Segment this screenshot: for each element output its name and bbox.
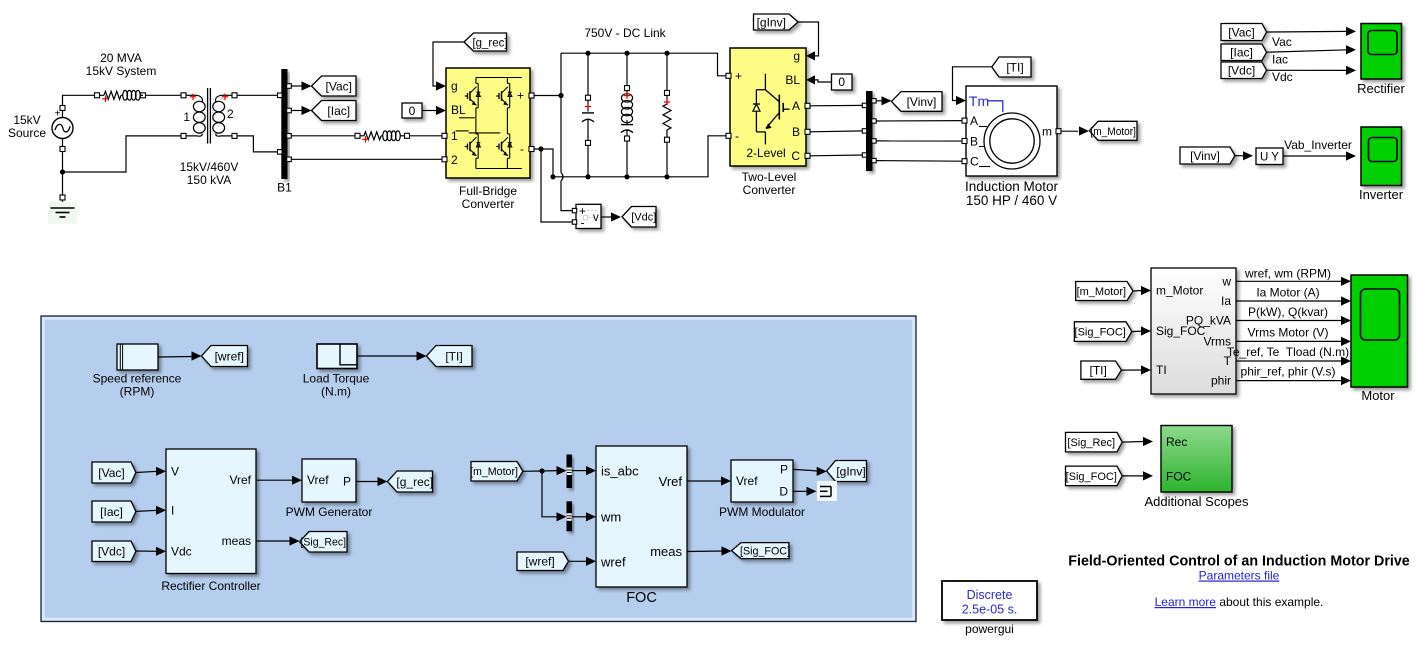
svg-text:Iac: Iac bbox=[1272, 53, 1288, 67]
svg-text:phir: phir bbox=[1211, 374, 1231, 388]
svg-text:Converter: Converter bbox=[462, 197, 515, 211]
svg-text:750V - DC Link: 750V - DC Link bbox=[584, 26, 666, 40]
svg-text:FOC: FOC bbox=[1166, 469, 1192, 483]
svg-text:[Sig_FOC]: [Sig_FOC] bbox=[740, 546, 790, 558]
svg-text:Rectifier Controller: Rectifier Controller bbox=[161, 579, 260, 593]
svg-text:P: P bbox=[780, 462, 788, 476]
svg-text:[TI]: [TI] bbox=[445, 349, 462, 363]
svg-text:B: B bbox=[970, 135, 978, 149]
svg-text:15kV System: 15kV System bbox=[86, 64, 157, 78]
svg-text:-: - bbox=[735, 129, 739, 143]
svg-text:Learn more about this example.: Learn more about this example. bbox=[1155, 595, 1324, 609]
svg-text:[Iac]: [Iac] bbox=[1230, 46, 1253, 60]
svg-text:C: C bbox=[791, 149, 800, 163]
svg-text:[Sig_Rec]: [Sig_Rec] bbox=[1067, 437, 1115, 449]
svg-text:m: m bbox=[1042, 125, 1052, 139]
svg-text:Rectifier: Rectifier bbox=[1357, 81, 1405, 96]
svg-text:[m_Motor]: [m_Motor] bbox=[1090, 126, 1136, 138]
svg-text:[m_Motor]: [m_Motor] bbox=[470, 466, 518, 478]
svg-text:w: w bbox=[1221, 275, 1231, 289]
svg-text:150 HP / 460 V: 150 HP / 460 V bbox=[966, 193, 1057, 208]
svg-text:v: v bbox=[593, 212, 599, 224]
svg-text:(RPM): (RPM) bbox=[120, 385, 155, 399]
svg-text:Vdc: Vdc bbox=[171, 545, 192, 559]
svg-text:g: g bbox=[451, 79, 458, 93]
svg-text:Motor: Motor bbox=[1361, 388, 1395, 403]
svg-text:A: A bbox=[792, 99, 800, 113]
svg-text:Ia: Ia bbox=[1221, 294, 1231, 308]
svg-text:2-Level: 2-Level bbox=[746, 146, 785, 160]
svg-text:I: I bbox=[171, 503, 174, 517]
svg-text:Source: Source bbox=[8, 126, 46, 140]
svg-text:(N.m): (N.m) bbox=[321, 385, 351, 399]
svg-text:B: B bbox=[792, 125, 800, 139]
svg-text:P(kW), Q(kvar): P(kW), Q(kvar) bbox=[1248, 305, 1328, 319]
svg-text:PQ_kVA: PQ_kVA bbox=[1186, 314, 1231, 328]
svg-text:Induction Motor: Induction Motor bbox=[965, 179, 1059, 194]
svg-text:Converter: Converter bbox=[743, 183, 796, 197]
svg-text:[Vdc]: [Vdc] bbox=[98, 545, 125, 559]
svg-text:P: P bbox=[343, 475, 351, 489]
svg-text:Load Torque: Load Torque bbox=[303, 372, 370, 386]
svg-text:Rec: Rec bbox=[1166, 435, 1187, 449]
svg-text:Vref: Vref bbox=[659, 474, 683, 489]
svg-text:-: - bbox=[520, 142, 524, 156]
svg-text:[TI]: [TI] bbox=[1090, 363, 1107, 377]
svg-text:[Iac]: [Iac] bbox=[327, 104, 350, 118]
svg-text:is_abc: is_abc bbox=[601, 463, 639, 478]
svg-text:[gInv]: [gInv] bbox=[836, 464, 865, 478]
svg-text:+: + bbox=[55, 109, 61, 120]
svg-text:B1: B1 bbox=[277, 181, 292, 195]
svg-text:2: 2 bbox=[227, 107, 234, 121]
svg-text:1: 1 bbox=[183, 110, 190, 124]
svg-text:2.5e-05 s.: 2.5e-05 s. bbox=[962, 603, 1018, 617]
svg-text:PWM Generator: PWM Generator bbox=[286, 505, 373, 519]
svg-text:15kV/460V: 15kV/460V bbox=[180, 160, 239, 174]
svg-text:[Vac]: [Vac] bbox=[1228, 25, 1254, 39]
svg-text:[Vinv]: [Vinv] bbox=[907, 95, 937, 109]
svg-text:C: C bbox=[970, 155, 979, 169]
svg-text:V: V bbox=[171, 464, 179, 478]
svg-text:Full-Bridge: Full-Bridge bbox=[459, 184, 517, 198]
svg-text:Ia Motor (A): Ia Motor (A) bbox=[1256, 286, 1319, 300]
svg-text:Vab_Inverter: Vab_Inverter bbox=[1284, 138, 1352, 152]
svg-text:2: 2 bbox=[451, 153, 458, 167]
svg-text:FOC: FOC bbox=[626, 590, 657, 606]
svg-text:Additional Scopes: Additional Scopes bbox=[1144, 494, 1249, 509]
svg-text:Vdc: Vdc bbox=[1272, 70, 1293, 84]
svg-text:PWM Modulator: PWM Modulator bbox=[719, 505, 805, 519]
svg-text:m_Motor: m_Motor bbox=[1156, 284, 1203, 298]
svg-text:[g_rec]: [g_rec] bbox=[396, 475, 433, 489]
svg-text:[Vdc]: [Vdc] bbox=[1228, 64, 1255, 78]
svg-text:[wref]: [wref] bbox=[215, 349, 244, 363]
svg-text:g: g bbox=[793, 49, 800, 63]
svg-text:meas: meas bbox=[650, 544, 682, 559]
svg-text:[wref]: [wref] bbox=[525, 555, 554, 569]
svg-text:150 kVA: 150 kVA bbox=[187, 173, 231, 187]
svg-text:Vref: Vref bbox=[736, 474, 758, 488]
svg-text:[gInv]: [gInv] bbox=[757, 15, 786, 29]
svg-text:[Vinv]: [Vinv] bbox=[1190, 149, 1220, 163]
svg-text:TI: TI bbox=[1156, 363, 1167, 377]
svg-text:Vrms Motor (V): Vrms Motor (V) bbox=[1248, 325, 1329, 339]
svg-text:[Vdc]: [Vdc] bbox=[631, 212, 656, 224]
svg-text:[g_rec]: [g_rec] bbox=[473, 35, 508, 49]
svg-text:+: + bbox=[517, 89, 524, 103]
svg-text:Two-Level: Two-Level bbox=[742, 170, 797, 184]
svg-text:Field-Oriented Control of an I: Field-Oriented Control of an Induction M… bbox=[1068, 554, 1410, 570]
svg-text:[Vac]: [Vac] bbox=[98, 466, 124, 480]
svg-text:U Y: U Y bbox=[1260, 151, 1279, 163]
svg-text:wref: wref bbox=[600, 554, 626, 569]
svg-text:Vref: Vref bbox=[307, 473, 329, 487]
svg-text:20 MVA: 20 MVA bbox=[100, 51, 142, 65]
svg-text:wm: wm bbox=[600, 509, 621, 524]
svg-text:Vref: Vref bbox=[229, 473, 251, 487]
svg-text:wref, wm (RPM): wref, wm (RPM) bbox=[1244, 267, 1331, 281]
svg-text:Vac: Vac bbox=[1272, 35, 1292, 49]
svg-text:Parameters file: Parameters file bbox=[1199, 569, 1280, 583]
svg-text:[Vac]: [Vac] bbox=[326, 79, 352, 93]
svg-text:[m_Motor]: [m_Motor] bbox=[1077, 286, 1127, 298]
svg-text:[Sig_FOC]: [Sig_FOC] bbox=[1066, 471, 1117, 483]
svg-text:[Sig_FOC]: [Sig_FOC] bbox=[1075, 327, 1126, 339]
svg-text:Discrete: Discrete bbox=[967, 588, 1013, 602]
svg-text:0: 0 bbox=[409, 104, 416, 118]
svg-text:BL: BL bbox=[451, 103, 466, 117]
svg-text:+: + bbox=[735, 69, 742, 83]
svg-text:powergui: powergui bbox=[965, 622, 1014, 636]
svg-text:Te_ref, Te Tload (N.m): Te_ref, Te Tload (N.m) bbox=[1227, 345, 1349, 359]
svg-text:0: 0 bbox=[838, 75, 845, 89]
svg-text:[Iac]: [Iac] bbox=[100, 505, 123, 519]
svg-text:Inverter: Inverter bbox=[1359, 187, 1404, 202]
svg-text:[Sig_Rec]: [Sig_Rec] bbox=[301, 537, 347, 549]
svg-text:15kV: 15kV bbox=[13, 113, 40, 127]
svg-text:A: A bbox=[970, 114, 978, 128]
svg-text:[TI]: [TI] bbox=[1006, 60, 1023, 74]
svg-text:phir_ref, phir (V.s): phir_ref, phir (V.s) bbox=[1241, 365, 1336, 379]
svg-text:BL: BL bbox=[785, 73, 800, 87]
svg-text:D: D bbox=[779, 484, 788, 498]
svg-text:Tm: Tm bbox=[969, 93, 989, 109]
svg-text:meas: meas bbox=[222, 534, 251, 548]
svg-text:Speed reference: Speed reference bbox=[93, 372, 182, 386]
